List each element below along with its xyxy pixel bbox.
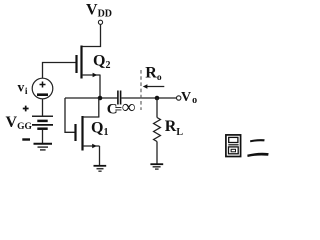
wire Q2 gate to vi (43, 63, 76, 79)
arrow Ro pointing left (143, 84, 165, 88)
svg-text:Q1: Q1 (91, 120, 108, 139)
wire vi to VGG battery (42, 99, 44, 116)
caption Figure 2 character Tu (226, 135, 241, 157)
svg-text:Ro: Ro (145, 65, 162, 84)
ground under RL (150, 164, 163, 169)
wire Q2 source down to node A (99, 75, 101, 98)
ground under VGG (34, 144, 53, 150)
transistor Q1 (76, 116, 100, 151)
wire Q1 gate loop (65, 98, 75, 132)
node B junction dot (155, 96, 160, 101)
label minus VGG (22, 138, 30, 140)
wire VDD to Q2 drain (82, 25, 101, 47)
svg-text:RL: RL (165, 118, 184, 138)
wire battery to ground (42, 130, 44, 144)
label VGG (6, 114, 33, 132)
ground under Q1 (94, 166, 107, 171)
label RL (165, 118, 184, 138)
label Q2 (93, 53, 110, 72)
svg-text:∞: ∞ (122, 97, 136, 118)
node A junction dot (98, 96, 103, 101)
terminal VDD circle (98, 20, 102, 24)
svg-text:VDD: VDD (86, 2, 112, 20)
dashed line Ro reference (140, 70, 142, 110)
label Ro (145, 65, 162, 84)
wire resistor RL to ground (156, 142, 158, 164)
wire node B to resistor RL (156, 98, 158, 118)
caption Figure 2 character Er (247, 139, 268, 157)
battery VGG (32, 116, 53, 128)
node A wire with junction to capacitor (65, 97, 117, 99)
label vo (181, 90, 197, 106)
wire capacitor to vo (121, 97, 176, 99)
svg-text:vi: vi (18, 79, 28, 97)
wire Q1 source to ground (99, 146, 101, 165)
transistor Q2 (77, 46, 101, 79)
label C equals infinity (107, 97, 136, 118)
svg-text:Q2: Q2 (93, 53, 110, 72)
terminal vo circle (177, 96, 181, 100)
source vi circle (32, 78, 53, 99)
wire Q1 drain to node A (98, 98, 100, 117)
capacitor C plates (118, 91, 121, 105)
label Q1 (91, 120, 108, 139)
label plus VGG (23, 106, 29, 112)
label VDD (86, 2, 112, 20)
svg-text:Vo: Vo (181, 90, 197, 106)
label vi (18, 79, 28, 97)
svg-text:VGG: VGG (6, 114, 33, 132)
resistor RL (154, 118, 161, 142)
